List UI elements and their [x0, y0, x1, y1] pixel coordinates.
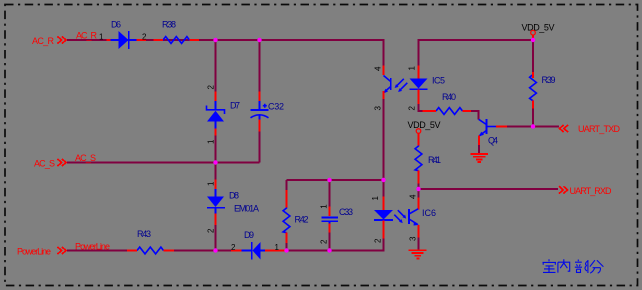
svg-text:1: 1	[320, 204, 329, 209]
junction node PowerLine D8	[213, 248, 217, 252]
wire IC6 LED pin2 down to PowerLine row	[330, 238, 384, 251]
wire AC_R down to C32 top	[259, 40, 261, 92]
svg-text:AC_R: AC_R	[76, 31, 98, 41]
svg-text:D8: D8	[229, 191, 239, 201]
resistor R43	[127, 229, 174, 254]
optocoupler IC6 LED	[371, 196, 393, 244]
wire net AC_R top row	[67, 40, 384, 66]
wire C33 bottom to PowerLine	[329, 232, 331, 251]
wire D7 pin1 down to AC_S row	[215, 135, 217, 163]
junction node C33 mid row	[327, 178, 331, 182]
svg-text:VDD_5V: VDD_5V	[408, 120, 441, 130]
svg-text:1: 1	[371, 196, 380, 201]
svg-text:Q4: Q4	[488, 136, 498, 146]
net label AC_R	[76, 31, 98, 41]
port AC_R	[32, 36, 66, 46]
svg-text:2: 2	[207, 228, 216, 233]
capacitor C32	[251, 92, 285, 132]
zener diode D7	[207, 85, 241, 145]
svg-text:R42: R42	[295, 215, 309, 225]
power port VDD_5V middle	[408, 120, 441, 133]
port UART_TXD	[560, 124, 621, 134]
svg-text:3: 3	[409, 236, 418, 241]
text label indoor section	[543, 259, 604, 273]
diode D6	[99, 20, 147, 50]
wire mid row down to R42	[286, 180, 288, 191]
svg-text:R40: R40	[442, 92, 456, 102]
svg-text:EM01A: EM01A	[234, 204, 259, 214]
wire mid row R42 C33 IC5	[287, 179, 384, 181]
junction node D7 top	[213, 38, 217, 42]
junction node AC_S D7 D8	[213, 160, 217, 164]
svg-text:AC_S: AC_S	[34, 159, 55, 169]
svg-text:1: 1	[408, 66, 417, 71]
port PowerLine	[17, 247, 66, 257]
value label EM01A	[234, 204, 259, 214]
svg-text:2: 2	[374, 238, 383, 243]
junction node IC5 IC6 mid row	[381, 178, 385, 182]
wire net AC_S row	[67, 162, 260, 164]
wire RXD node down to IC6 pin4	[418, 189, 420, 198]
resistor R39	[530, 72, 556, 109]
wire IC5 transistor pin3 down to IC6 LED pin1	[383, 99, 385, 197]
wire R42 bottom to PowerLine	[286, 243, 288, 251]
svg-text:D9: D9	[244, 230, 254, 240]
wire AC_S down to D8 pin1	[215, 163, 217, 181]
svg-text:VDD_5V: VDD_5V	[522, 23, 555, 33]
optocoupler IC5 LED	[408, 66, 446, 111]
junction node VDD rail	[531, 38, 535, 42]
svg-text:1: 1	[207, 139, 216, 144]
svg-text:2: 2	[231, 243, 236, 252]
wire VDD_5V down to R39	[532, 40, 534, 73]
resistor R42	[283, 190, 308, 243]
svg-text:C32: C32	[268, 102, 284, 112]
wire net PowerLine row segment 1	[67, 250, 128, 252]
svg-text:C33: C33	[339, 207, 353, 217]
resistor R40	[423, 92, 471, 114]
svg-text:3: 3	[374, 106, 383, 111]
svg-text:R39: R39	[542, 75, 556, 85]
wire mid row down to C33	[329, 180, 331, 207]
wire net PowerLine row segment 2	[174, 250, 232, 252]
optocoupler IC5 phototransistor	[374, 66, 408, 111]
diode D8	[207, 180, 240, 234]
wire R41 bottom to RXD node	[418, 184, 420, 190]
svg-text:AC_R: AC_R	[32, 36, 55, 46]
wire IC5 LED pin1 up to VDD rail	[419, 40, 534, 66]
wire R39 to UART_TXD node	[532, 108, 534, 127]
svg-text:R41: R41	[428, 155, 441, 165]
svg-text:1: 1	[275, 243, 280, 252]
junction node UART_TXD	[531, 124, 535, 128]
power port VDD_5V top	[522, 23, 555, 39]
svg-text:2: 2	[142, 33, 147, 42]
svg-text:R43: R43	[137, 229, 151, 239]
net label PowerLine	[75, 242, 110, 252]
junction node R42 PowerLine	[284, 248, 288, 252]
svg-text:4: 4	[374, 66, 383, 71]
wire node to port UART_TXD	[533, 126, 559, 128]
svg-text:1: 1	[207, 181, 216, 186]
svg-text:IC6: IC6	[422, 208, 436, 218]
svg-text:UART_TXD: UART_TXD	[578, 124, 621, 134]
ground below Q4 emitter	[471, 154, 489, 162]
wire node to port UART_RXD	[419, 188, 559, 190]
svg-text:R38: R38	[162, 20, 176, 30]
resistor R38	[154, 20, 199, 44]
svg-text:PowerLine: PowerLine	[17, 247, 51, 257]
svg-text:AC_S: AC_S	[75, 153, 96, 163]
wire AC_S up to C32 bottom	[259, 131, 261, 163]
svg-text:D7: D7	[230, 101, 240, 111]
transistor Q4	[479, 119, 507, 146]
ground below IC6 pin3	[409, 238, 427, 259]
wire Q4 base to node	[507, 126, 534, 128]
junction node C32 top	[257, 38, 261, 42]
wire R40 to Q4 collector	[471, 111, 479, 120]
net label AC_S	[75, 153, 96, 163]
resistor R41	[415, 134, 441, 184]
wire AC_R down to D7 pin2	[215, 40, 217, 92]
junction node C33 PowerLine	[327, 248, 331, 252]
svg-text:D6: D6	[111, 20, 121, 30]
wire Q4 emitter to ground	[478, 145, 480, 154]
svg-text:2: 2	[320, 239, 329, 244]
optocoupler IC6 phototransistor	[394, 194, 436, 241]
port UART_RXD	[559, 186, 612, 196]
port AC_S	[34, 159, 66, 169]
svg-text:PowerLine: PowerLine	[75, 242, 110, 252]
svg-text:IC5: IC5	[432, 76, 445, 86]
svg-text:UART_RXD: UART_RXD	[570, 186, 613, 196]
wire D8 pin2 down to PowerLine row	[215, 225, 217, 251]
capacitor C33	[320, 204, 354, 244]
svg-text:2: 2	[207, 85, 216, 90]
svg-text:4: 4	[409, 194, 418, 199]
svg-text:2: 2	[408, 106, 417, 111]
junction node UART_RXD	[416, 187, 420, 191]
svg-text:1: 1	[99, 33, 104, 42]
wire net PowerLine row segment 3	[285, 250, 330, 252]
wire IC5 LED pin2 elbow to R40	[419, 104, 424, 112]
diode D9	[231, 230, 285, 260]
